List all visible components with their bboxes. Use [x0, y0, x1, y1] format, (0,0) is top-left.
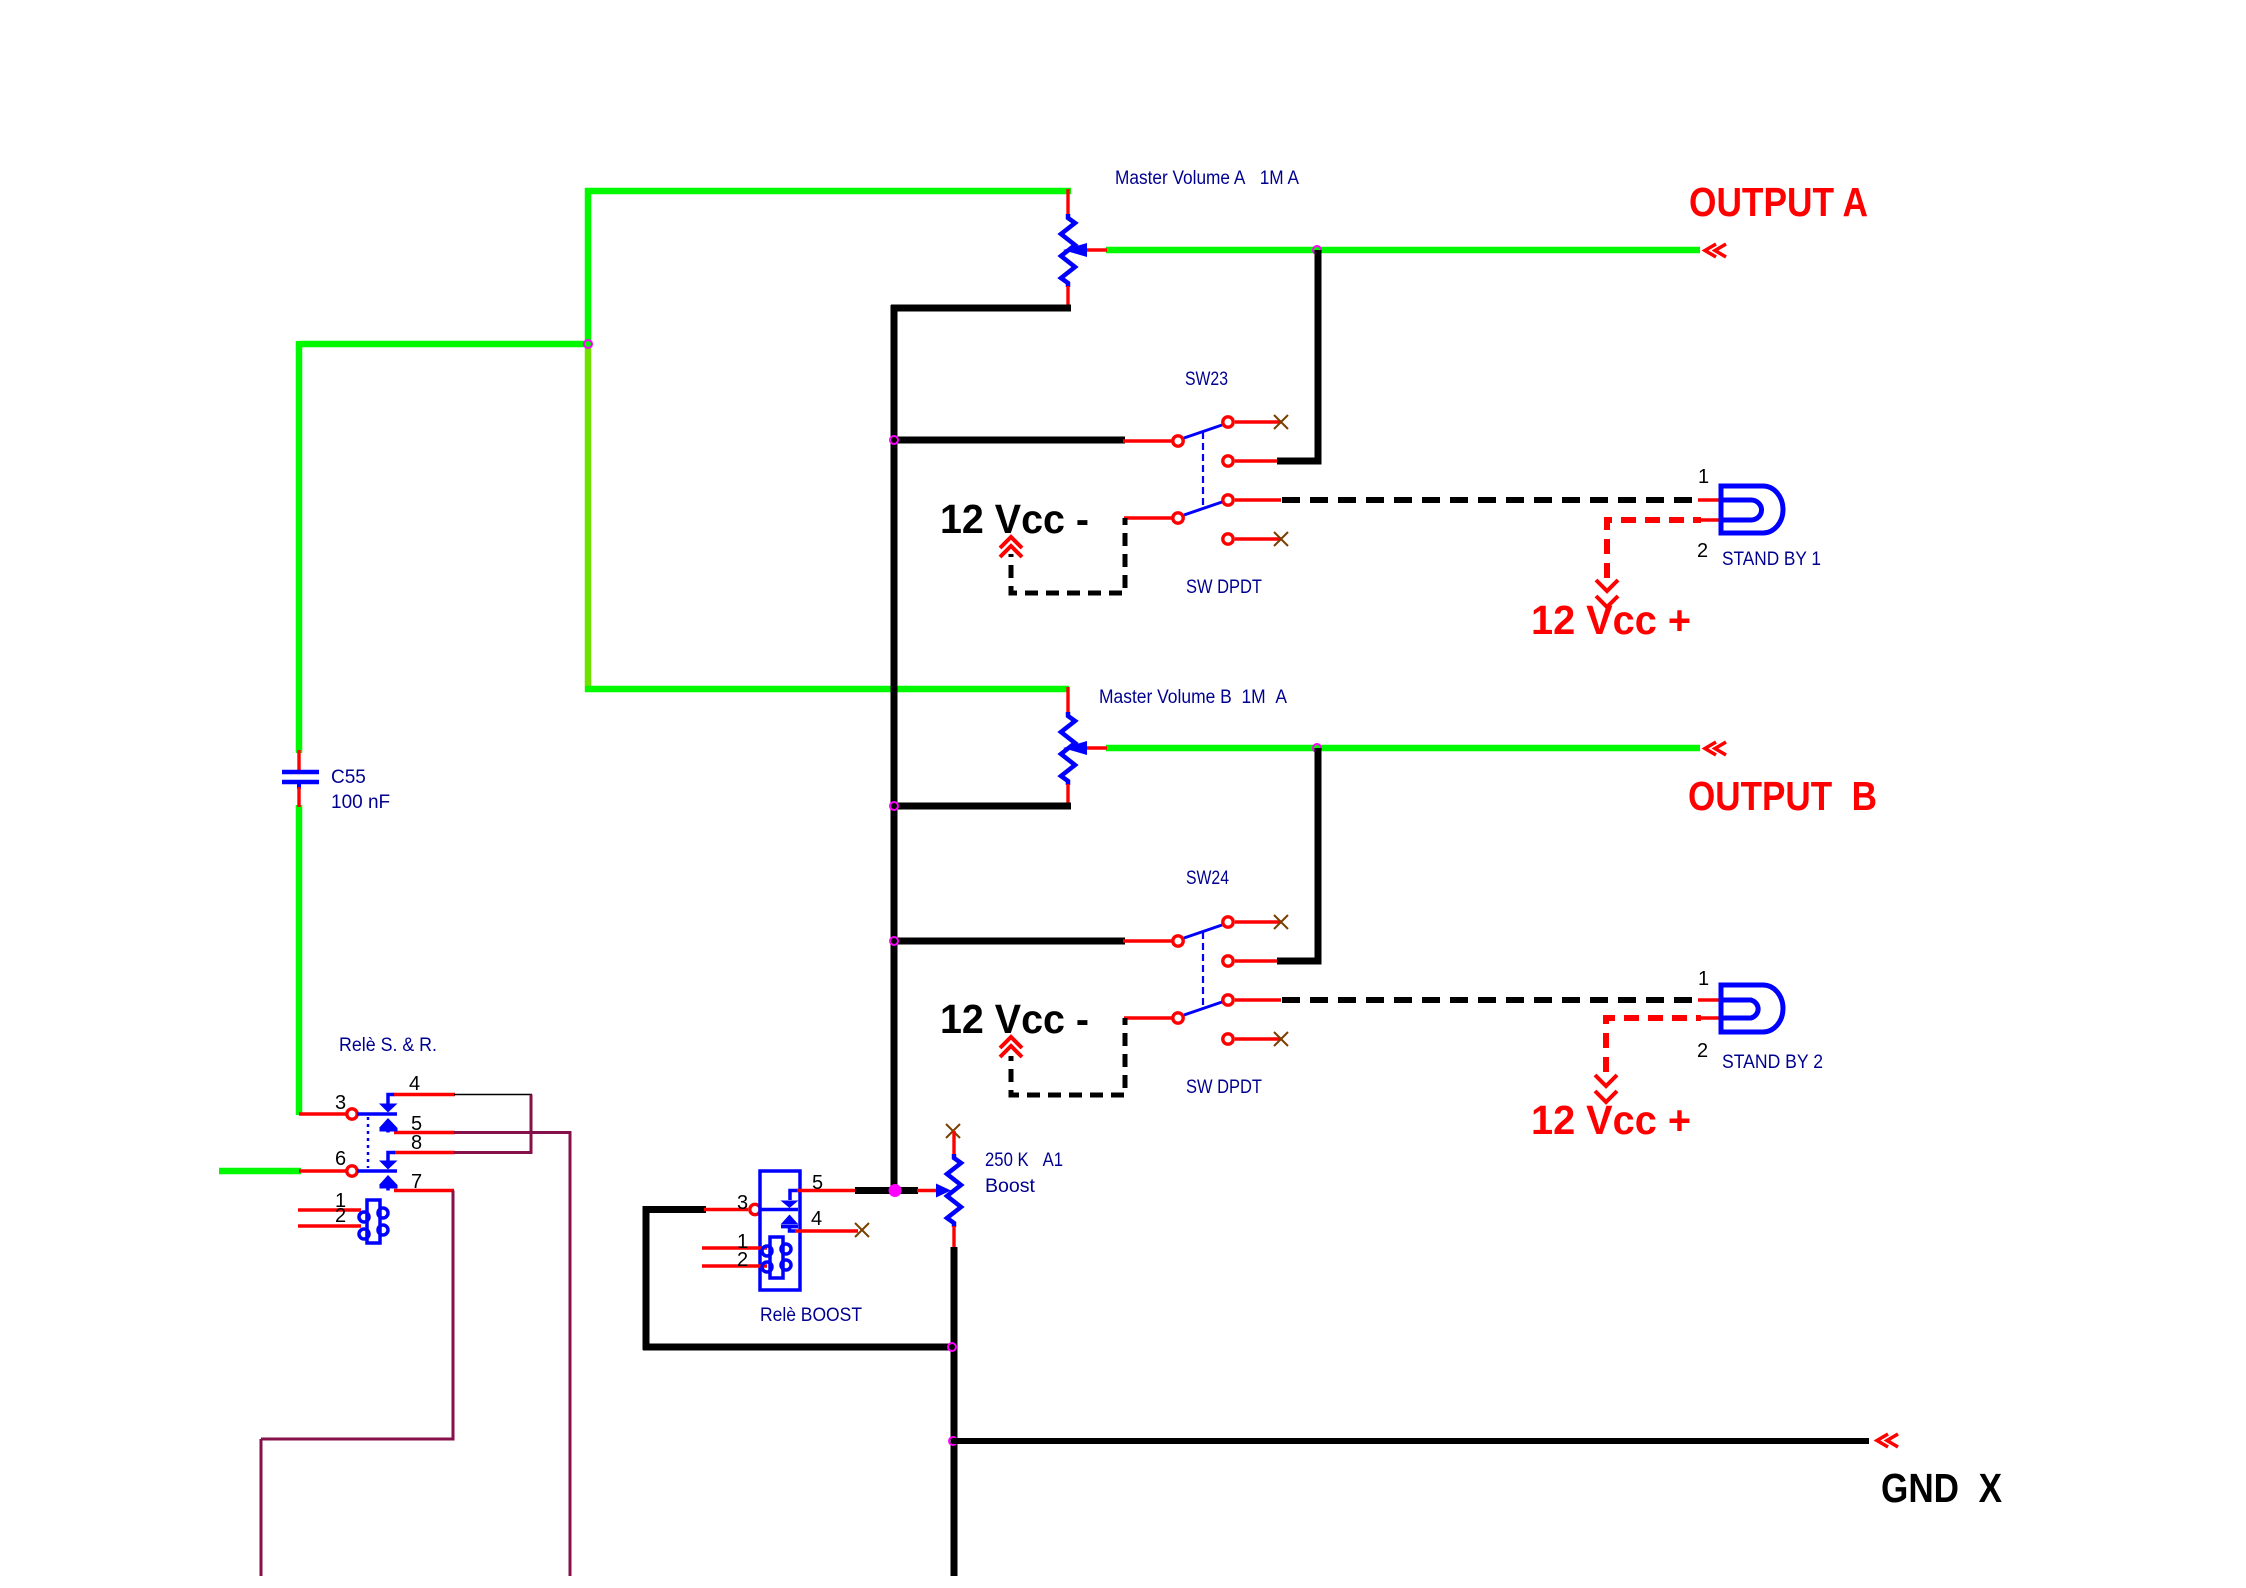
switch SW24 pole 2 arm: [1184, 1002, 1222, 1015]
switch SW24 common 1 contact: [1173, 936, 1183, 946]
wire red SW24 common 1: [1123, 939, 1173, 942]
wire red SW24 throw 2a: [1235, 998, 1281, 1001]
switch SW24 throw 2b contact: [1223, 1034, 1233, 1044]
wire green top horizontal net IN-A: [585, 188, 1071, 195]
wire red to Relè BOOST pin 3: [704, 1208, 748, 1211]
wire maroon loop pin4 to pin8 vertical: [530, 1095, 533, 1153]
svg-text:12 Vcc +: 12 Vcc +: [1531, 597, 1691, 643]
relay Relè BOOST pin 3 contact ring: [750, 1204, 760, 1214]
relay Relè BOOST NC arrow: [781, 1201, 799, 1209]
wire black dashed from SW23 to STAND BY 1 pin 1: [1282, 497, 1701, 503]
wire red dashed 12Vcc+ to lamp1 pin 2: [1607, 520, 1701, 578]
switch SW23 throw 2b contact: [1223, 534, 1233, 544]
node junction ring at green OUTPUT B / black drop (1317,748): [1313, 744, 1321, 752]
svg-text:Relè S. & R.: Relè S. & R.: [339, 1035, 437, 1056]
wire maroon pin5 net vertical to bottom: [569, 1133, 572, 1577]
wire red stub bottom of Master Volume A: [1066, 286, 1069, 310]
no-connect X at SW24 throw 2b: [1274, 1032, 1288, 1046]
wire red Relè S&R pin 4: [394, 1093, 455, 1096]
wire green (yellow-green) vertical x=588 to Master Volume B loop: [585, 347, 592, 692]
wire green OUTPUT B net from wiper B: [1106, 745, 1700, 752]
power arrow red chevrons 12Vcc- (B, up): [1000, 1037, 1022, 1057]
svg-text:SW24: SW24: [1186, 868, 1229, 889]
port chevron GND X: [1877, 1434, 1898, 1447]
wire maroon pin5 horizontal: [454, 1131, 572, 1134]
switch SW24 throw 1b contact: [1223, 956, 1233, 966]
no-connect X above Boost pot: [946, 1124, 960, 1138]
wire red Relè BOOST coil pin 1: [702, 1246, 767, 1249]
svg-text:SW DPDT: SW DPDT: [1186, 577, 1262, 598]
power arrow red chevrons 12Vcc- (up): [1000, 537, 1022, 557]
wire red SW24 throw 2b: [1235, 1037, 1281, 1040]
no-connect X at SW23 throw 2b: [1274, 532, 1288, 546]
relay Relè S&R pin 3 contact ring: [347, 1109, 357, 1119]
svg-text:7: 7: [411, 1171, 422, 1193]
wire red stub below C55: [297, 787, 300, 807]
svg-text:GND X: GND X: [1881, 1465, 2002, 1511]
switch SW23 throw 1a contact: [1223, 417, 1233, 427]
no-connect X at SW24 throw 1a: [1274, 915, 1288, 929]
svg-text:3: 3: [737, 1192, 748, 1214]
wire red stub lamp1 pin 1: [1698, 498, 1722, 501]
relay Relè S&R coil bump right lower: [378, 1225, 388, 1235]
potentiometer 250K Boost wiper arrow: [936, 1184, 951, 1198]
port chevron OUTPUT A: [1705, 244, 1726, 257]
svg-text:OUTPUT B: OUTPUT B: [1688, 773, 1877, 819]
wire red SW23 throw 2b: [1235, 537, 1281, 540]
node junction dot at (895,1190): [889, 1184, 902, 1197]
wire red SW24 throw 1b: [1235, 959, 1278, 962]
switch SW23 throw 1b contact: [1223, 456, 1233, 466]
wire red SW23 throw 1b: [1235, 459, 1278, 462]
relay Relè BOOST pin 4 elbow: [790, 1226, 797, 1231]
potentiometer Master Volume B wiper arrow: [1063, 741, 1087, 755]
svg-text:8: 8: [411, 1132, 422, 1154]
wire green vertical below C55: [296, 805, 303, 1115]
svg-text:5: 5: [812, 1172, 823, 1194]
switch SW24 mechanical link dashed: [1202, 932, 1204, 1007]
wire red stub lamp2 pin 1: [1698, 998, 1722, 1001]
svg-text:4: 4: [409, 1073, 420, 1095]
node junction ring at (894,806): [890, 802, 898, 810]
wire red stub lamp2 pin 2: [1698, 1016, 1722, 1019]
wire maroon pin7 net vertical to bottom left: [260, 1439, 263, 1576]
wire maroon pin7 horizontal at y=1439: [261, 1438, 455, 1441]
svg-text:OUTPUT A: OUTPUT A: [1689, 179, 1868, 225]
svg-text:12 Vcc -: 12 Vcc -: [940, 996, 1089, 1042]
wire red Relè S&R pin 5: [394, 1131, 455, 1134]
relay Relè BOOST coil bump right lower: [781, 1260, 791, 1270]
wire red dashed 12Vcc+ to lamp2 pin 2: [1606, 1018, 1701, 1072]
relay Relè BOOST NO contact bar: [781, 1225, 798, 1229]
wire black GND X rail: [954, 1438, 1869, 1444]
wire black elbow from SW23 throw 1b up to OUTPUT A junction: [1277, 250, 1318, 461]
svg-text:SW23: SW23: [1185, 369, 1228, 390]
relay Relè S&R pole 2 common line: [357, 1169, 397, 1173]
relay Relè BOOST coil core: [770, 1237, 783, 1278]
svg-text:STAND BY 2: STAND BY 2: [1722, 1052, 1823, 1073]
relay Relè S&R mechanical link dotted: [367, 1117, 370, 1168]
switch SW23 common 1 contact: [1173, 436, 1183, 446]
relay Relè S&R NO contact arrow pole 1: [379, 1118, 398, 1128]
node junction ring at (953,1441): [949, 1437, 957, 1445]
switch SW23 pole 2 arm: [1184, 502, 1222, 515]
relay Relè S&R coil bump left upper: [359, 1212, 369, 1222]
wire red SW23 throw 2a: [1235, 498, 1281, 501]
wire red Relè BOOST coil pin 2: [702, 1264, 767, 1267]
switch SW23 common 2 contact: [1173, 513, 1183, 523]
wire red stub bottom of Master Volume B: [1066, 784, 1069, 808]
svg-text:1: 1: [1698, 968, 1709, 990]
relay Relè BOOST body rectangle: [760, 1171, 800, 1290]
switch SW24 pole 1 arm: [1184, 925, 1222, 938]
wire black segment in pin 5 net: [855, 1187, 918, 1194]
wire red SW23 throw 1a: [1235, 420, 1281, 423]
svg-text:C55: C55: [331, 767, 366, 788]
wire maroon pin7 vertical: [452, 1191, 455, 1441]
relay Relè S&R pin 6 contact ring: [347, 1166, 357, 1176]
lamp STAND BY 2 outer envelope: [1721, 985, 1783, 1032]
wire red SW23 common 1: [1123, 439, 1173, 442]
wire green vertical left side of top loop: [585, 188, 592, 347]
wire red SW24 common 2: [1124, 1016, 1173, 1019]
svg-text:250 K A1: 250 K A1: [985, 1150, 1063, 1171]
wire red stub below Boost pot: [952, 1226, 955, 1249]
switch SW24 throw 1a contact: [1223, 917, 1233, 927]
relay Relè S&R coil core: [367, 1200, 380, 1243]
wire green OUTPUT A net from wiper A: [1106, 247, 1700, 254]
relay Relè S&R pole 1 common line: [357, 1112, 397, 1116]
svg-text:Master Volume B 1M A: Master Volume B 1M A: [1099, 687, 1287, 708]
wire black dashed from SW24 to STAND BY 2 pin 1: [1282, 997, 1701, 1003]
svg-text:Boost: Boost: [985, 1176, 1036, 1197]
lamp STAND BY 1 inner filament: [1723, 500, 1762, 520]
wire red Relè BOOST pin 5: [797, 1189, 856, 1192]
switch SW23 pole 1 arm: [1184, 425, 1222, 438]
node junction ring at (894,941): [890, 937, 898, 945]
wire black from Master Volume B bottom: [894, 803, 1071, 810]
node junction ring at green OUTPUT A / black drop (1317,250): [1313, 246, 1321, 254]
relay Relè S&R NO contact arrow pole 2: [379, 1175, 398, 1185]
capacitor C55 lower lead stub blue: [297, 782, 301, 789]
wire green vertical down to C55: [296, 341, 303, 753]
lamp STAND BY 1 outer envelope: [1721, 486, 1783, 533]
wire black loop left vertical: [643, 1206, 650, 1350]
capacitor C55 top plate: [282, 770, 319, 775]
potentiometer Master Volume A resistive element: [1061, 214, 1075, 287]
svg-text:12 Vcc +: 12 Vcc +: [1531, 1097, 1691, 1143]
wire black dashed 12Vcc- loop (B): [1011, 1018, 1125, 1095]
relay Relè S&R coil bump left lower: [359, 1229, 369, 1239]
wire maroon pin8 horizontal: [454, 1151, 533, 1154]
relay Relè BOOST NO arrow: [781, 1215, 799, 1225]
potentiometer 250K Boost resistive element: [947, 1154, 961, 1227]
switch SW24 throw 2a contact: [1223, 995, 1233, 1005]
wire red stub top of Master Volume A: [1066, 189, 1069, 215]
relay Relè BOOST coil bump left lower: [762, 1262, 772, 1272]
wire black feed to SW23 pole 1: [894, 437, 1125, 444]
wire green stub to Relè S & R pin 6: [219, 1168, 301, 1175]
svg-text:100 nF: 100 nF: [331, 792, 390, 813]
svg-text:Relè BOOST: Relè BOOST: [760, 1305, 862, 1326]
svg-text:2: 2: [1697, 540, 1708, 562]
svg-text:Master Volume A 1M A: Master Volume A 1M A: [1115, 168, 1299, 189]
port chevron OUTPUT B: [1705, 742, 1726, 755]
wire red SW23 common 2: [1124, 516, 1173, 519]
relay Relè S&R NC contact arrow pole 2: [379, 1161, 398, 1170]
wire red stub top of Master Volume B: [1066, 687, 1069, 713]
relay Relè S&R coil bump right upper: [378, 1208, 388, 1218]
wire green feeds Relè S&R pin 6 : red link: [299, 1169, 346, 1172]
wire black feed to Relè BOOST pin 3: [643, 1206, 706, 1213]
wire red to Relè S&R pin 3: [299, 1112, 346, 1115]
wire red to Boost pot wiper: [917, 1189, 938, 1192]
svg-text:SW DPDT: SW DPDT: [1186, 1077, 1262, 1098]
relay Relè BOOST common line pin 3: [761, 1208, 798, 1212]
no-connect X at Relè BOOST pin 4: [855, 1223, 869, 1237]
relay Relè S&R NO contact bar pole 1: [380, 1130, 398, 1133]
no-connect X at SW23 throw 1a: [1274, 415, 1288, 429]
relay Relè BOOST coil bump right upper: [781, 1244, 791, 1254]
wire red Relè S&R pin 8: [394, 1151, 455, 1154]
wire red wiper lead Master Volume B: [1080, 746, 1107, 749]
wire red SW24 throw 1a: [1235, 920, 1281, 923]
wire red Relè S&R coil pin 1: [298, 1208, 361, 1211]
svg-text:1: 1: [1698, 466, 1709, 488]
wire red Relè S&R coil pin 2: [298, 1224, 361, 1227]
svg-text:12 Vcc -: 12 Vcc -: [940, 496, 1089, 542]
wire red stub above Boost pot: [952, 1131, 955, 1155]
wire red wiper lead Master Volume A: [1080, 248, 1107, 251]
potentiometer Master Volume A wiper arrow: [1063, 243, 1087, 257]
switch SW23 mechanical link dashed: [1202, 432, 1204, 507]
wire black dashed 12Vcc- loop: [1011, 518, 1125, 593]
wire black from Master Volume A bottom: [891, 305, 1071, 312]
wire black feed to SW24 pole 1: [894, 938, 1125, 945]
wire thin black from pin 4: [454, 1094, 532, 1096]
node junction ring at (952,1347): [948, 1343, 956, 1351]
wire black main bus vertical x=894: [891, 305, 898, 1190]
wire red stub above C55: [297, 750, 300, 770]
svg-text:4: 4: [811, 1208, 822, 1230]
svg-text:6: 6: [335, 1148, 346, 1170]
wire black vertical below Boost pot to GND rail: [951, 1247, 958, 1576]
wire red Relè S&R pin 7: [394, 1189, 454, 1192]
node junction ring green T at (588,344): [584, 340, 592, 348]
switch SW24 common 2 contact: [1173, 1013, 1183, 1023]
wire green horizontal feeding Master Volume B: [585, 686, 1069, 693]
svg-text:2: 2: [335, 1205, 346, 1227]
switch SW23 throw 2a contact: [1223, 495, 1233, 505]
relay Relè S&R pin 4 elbow: [388, 1095, 395, 1105]
power arrow red chevrons down 12Vcc+ (B): [1595, 1075, 1617, 1102]
capacitor C55 bottom plate: [282, 780, 319, 785]
wire green horizontal to C55 branch: [299, 341, 591, 348]
relay Relè BOOST pin 5 elbow: [790, 1191, 798, 1201]
power arrow red chevrons down 12Vcc+ (A): [1596, 580, 1618, 607]
relay Relè S&R pin 8 elbow: [388, 1153, 395, 1162]
relay Relè S&R NC contact arrow pole 1: [379, 1104, 398, 1113]
svg-text:STAND BY 1: STAND BY 1: [1722, 549, 1821, 570]
potentiometer Master Volume B resistive element: [1061, 712, 1075, 785]
wire red Relè BOOST pin 4: [795, 1229, 858, 1232]
node junction ring at (894,440): [890, 436, 898, 444]
wire red stub lamp1 pin 2: [1698, 518, 1722, 521]
svg-text:2: 2: [1697, 1040, 1708, 1062]
wire black loop bottom horizontal: [643, 1344, 954, 1351]
lamp STAND BY 2 inner filament: [1723, 1000, 1758, 1018]
relay Relè S&R NO contact bar pole 2: [380, 1187, 398, 1191]
svg-text:2: 2: [737, 1249, 748, 1271]
svg-text:3: 3: [335, 1092, 346, 1114]
relay Relè BOOST coil bump left upper: [762, 1246, 772, 1256]
wire black elbow from SW24 throw 1b up to OUTPUT B junction: [1277, 748, 1318, 961]
